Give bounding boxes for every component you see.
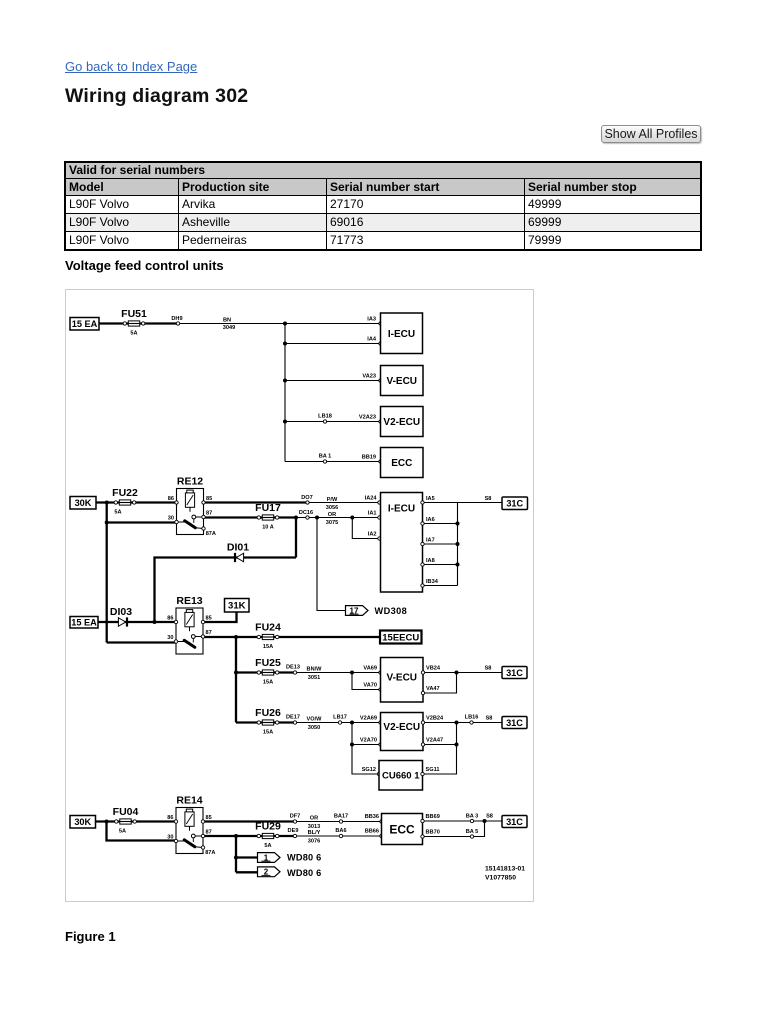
svg-text:FU25: FU25 — [255, 657, 281, 669]
wire RE13 87 through FU24 to 15EECU (thick) — [204, 636, 381, 638]
diode DI01 — [155, 558, 297, 623]
svg-text:I-ECU: I-ECU — [388, 504, 415, 515]
table: valid serial numbers — [64, 161, 702, 251]
figure border — [66, 290, 534, 902]
wire VO/W 3050 to V2-ECU V2A69 — [295, 722, 381, 724]
wire to IA4 — [285, 343, 381, 345]
svg-text:LB16: LB16 — [465, 715, 479, 721]
title — [65, 85, 248, 108]
V-ECU block (top) — [381, 366, 424, 396]
svg-text:5A: 5A — [119, 828, 126, 834]
V2-ECU block (top) — [381, 407, 424, 437]
connector 31C (row 2) — [502, 667, 527, 679]
wire FU25 feed (thick) — [236, 671, 295, 673]
pin IA5 — [421, 501, 424, 504]
node LB17 — [338, 721, 341, 724]
svg-text:3049: 3049 — [223, 325, 235, 331]
wire RE14 85 to DF7 (thick) — [204, 820, 296, 822]
link: go back — [65, 59, 197, 74]
pin V2A23 — [379, 420, 382, 423]
svg-text:87: 87 — [206, 630, 212, 636]
junction nodes — [153, 620, 157, 624]
node LB18 — [323, 420, 326, 423]
wire 30K feed (thick) through FU22 to RE12 86 — [96, 501, 177, 503]
svg-text:FU17: FU17 — [255, 502, 281, 514]
svg-text:CU660 1: CU660 1 — [382, 771, 420, 782]
node DE17 — [293, 721, 296, 724]
node DE13 — [293, 671, 296, 674]
connector 31C (row 4) — [502, 816, 527, 828]
fuse FU51 5A — [123, 322, 126, 325]
wires I-ECU right pins to 31C bus — [423, 502, 458, 504]
button Show All Profiles — [601, 125, 701, 143]
connector 30K — [70, 497, 96, 510]
wire V2B24 to 31C — [423, 722, 502, 724]
svg-text:V1077850: V1077850 — [485, 874, 516, 881]
svg-text:30: 30 — [167, 635, 173, 641]
svg-text:87A: 87A — [206, 531, 216, 537]
svg-text:FU24: FU24 — [255, 622, 281, 634]
svg-text:3075: 3075 — [326, 520, 338, 526]
connector 31C (row 1) — [502, 497, 528, 510]
svg-text:BB36: BB36 — [365, 814, 379, 820]
connector 31C (row 3) — [502, 717, 527, 729]
svg-text:SG11: SG11 — [426, 767, 440, 773]
wire BL/Y 3076 to ECC BB66 — [295, 835, 382, 837]
svg-text:RE13: RE13 — [176, 595, 202, 607]
svg-text:3076: 3076 — [308, 838, 320, 844]
connector WD308 pin 17 — [346, 606, 369, 616]
svg-text:86: 86 — [167, 815, 173, 821]
figure caption — [65, 929, 116, 944]
svg-text:V2A69: V2A69 — [360, 716, 377, 722]
wire RE14 87 through FU29 (thick) — [204, 835, 296, 837]
svg-text:BB19: BB19 — [362, 455, 376, 461]
fuse FU04 5A — [115, 820, 118, 823]
wire feed bus down to FU25/FU26 (thick) — [235, 637, 237, 723]
connector WD806 pin 1 — [258, 853, 281, 863]
wire ECC BB69 to 31C — [423, 820, 503, 822]
pin IA8 — [421, 563, 424, 566]
svg-text:V-ECU: V-ECU — [386, 672, 417, 683]
svg-text:WD308: WD308 — [375, 606, 408, 616]
wire vertical bus — [284, 324, 286, 462]
wire drop to DI01 (thick) — [295, 518, 297, 558]
svg-text:BB70: BB70 — [426, 830, 440, 836]
node LB16 — [470, 721, 473, 724]
fuse FU22 5A — [114, 501, 117, 504]
wire branch to VA70 — [352, 673, 381, 690]
wire S8 to 31C — [458, 502, 503, 504]
svg-text:86: 86 — [168, 496, 174, 502]
svg-text:VA23: VA23 — [362, 374, 376, 380]
svg-text:IA7: IA7 — [426, 538, 435, 544]
pin IA7 — [421, 542, 424, 545]
wire branch to V2A70 and SG12 — [352, 723, 379, 775]
wire RE13 85 up to 31K (thick) — [204, 612, 237, 622]
node BA6 — [339, 834, 342, 837]
svg-text:5A: 5A — [114, 509, 121, 515]
svg-text:3013: 3013 — [308, 824, 320, 830]
svg-text:87A: 87A — [205, 850, 215, 856]
connector 31K — [225, 599, 250, 613]
pin BB66 — [380, 834, 383, 837]
CU660 1 block — [379, 761, 423, 791]
wire 30K vertical bus (thick) — [106, 503, 108, 643]
svg-text:3050: 3050 — [308, 725, 320, 731]
node DO7 — [306, 501, 309, 504]
svg-text:15A: 15A — [263, 644, 273, 650]
svg-text:DC16: DC16 — [299, 510, 313, 516]
wire V2A47 riser and SG11 riser — [423, 744, 457, 746]
svg-text:LB18: LB18 — [318, 414, 332, 420]
svg-text:V2-ECU: V2-ECU — [383, 417, 420, 428]
pin IA2 — [378, 537, 381, 540]
svg-text:VA70: VA70 — [363, 683, 377, 689]
svg-text:30: 30 — [168, 515, 174, 521]
pin V2A69 — [379, 721, 382, 724]
svg-text:V2A47: V2A47 — [426, 738, 443, 744]
svg-text:FU51: FU51 — [121, 308, 147, 320]
svg-text:BA 1: BA 1 — [319, 454, 332, 460]
svg-text:IA2: IA2 — [368, 532, 377, 538]
svg-text:DE9: DE9 — [288, 828, 299, 834]
svg-text:85: 85 — [206, 815, 212, 821]
node BA3 — [470, 819, 473, 822]
svg-text:5A: 5A — [130, 330, 137, 336]
svg-text:85: 85 — [206, 496, 212, 502]
svg-text:VB24: VB24 — [426, 666, 441, 672]
svg-text:IA24: IA24 — [365, 496, 378, 502]
relay RE14 — [176, 808, 203, 854]
svg-text:DE13: DE13 — [286, 665, 300, 671]
pin IA3 — [379, 322, 382, 325]
junction nodes — [105, 820, 109, 824]
svg-text:IA4: IA4 — [367, 337, 377, 343]
svg-text:VO/W: VO/W — [307, 717, 323, 723]
wire ECC BB70 riser — [423, 821, 485, 837]
pin V2A47 — [421, 743, 424, 746]
pin BB69 — [421, 819, 424, 822]
svg-text:I-ECU: I-ECU — [388, 329, 415, 340]
svg-text:BA 3: BA 3 — [466, 814, 479, 820]
pin VA47 — [421, 691, 424, 694]
svg-text:BA17: BA17 — [334, 814, 348, 820]
svg-text:3056: 3056 — [326, 505, 338, 511]
pin BB70 — [421, 835, 424, 838]
fuse FU17 10A — [257, 516, 260, 519]
pin VA69 — [379, 671, 382, 674]
wire drop to WD308 arrow — [317, 518, 346, 611]
pin IA6 — [421, 522, 424, 525]
pin IB34 — [421, 584, 424, 587]
svg-text:15A: 15A — [263, 679, 273, 685]
svg-text:S8: S8 — [486, 814, 493, 820]
pin V2B24 — [421, 721, 424, 724]
wire drop to WD806 arrows (thick) — [235, 836, 237, 872]
wire OR 3013 to ECC BB36 — [295, 821, 382, 823]
svg-text:BB69: BB69 — [426, 814, 440, 820]
svg-text:FU29: FU29 — [255, 821, 281, 833]
svg-text:VA69: VA69 — [363, 666, 377, 672]
svg-text:DH9: DH9 — [171, 316, 182, 322]
wire 30K feed through FU04 to RE14 86 (thick) — [96, 820, 177, 822]
pin V2A70 — [379, 743, 382, 746]
svg-text:87: 87 — [206, 829, 212, 835]
wire P/W 3056 DO7 to I-ECU IA24 — [308, 502, 381, 504]
fuse FU25 15A — [257, 671, 260, 674]
fuse FU26 15A — [257, 721, 260, 724]
svg-text:DF7: DF7 — [290, 814, 301, 820]
svg-text:IA6: IA6 — [426, 517, 435, 523]
svg-text:BL/Y: BL/Y — [308, 830, 321, 836]
svg-text:V2B24: V2B24 — [426, 716, 444, 722]
svg-text:FU26: FU26 — [255, 707, 281, 719]
pin BB36 — [380, 820, 383, 823]
pin VA70 — [379, 688, 382, 691]
pin IA4 — [379, 342, 382, 345]
node DH9 — [176, 322, 179, 325]
pin IA24 — [378, 501, 381, 504]
svg-text:V2A23: V2A23 — [359, 415, 376, 421]
svg-text:DE17: DE17 — [286, 715, 300, 721]
ECC block (main) — [382, 814, 423, 845]
svg-text:RE12: RE12 — [177, 476, 203, 488]
svg-text:30K: 30K — [74, 817, 91, 827]
pin SG11 — [421, 772, 424, 775]
node BA5 — [470, 835, 473, 838]
svg-text:15EECU: 15EECU — [382, 632, 419, 643]
wire to RE12 pin 30 — [107, 521, 177, 523]
svg-text:86: 86 — [167, 615, 173, 621]
svg-text:WD80 6: WD80 6 — [287, 868, 321, 878]
junction nodes — [105, 501, 109, 505]
svg-text:31C: 31C — [506, 499, 523, 509]
pin BB19 — [379, 460, 382, 463]
svg-text:15141813-01: 15141813-01 — [485, 865, 525, 872]
svg-text:15A: 15A — [263, 729, 273, 735]
svg-text:P/W: P/W — [327, 497, 338, 503]
svg-text:5A: 5A — [264, 843, 271, 849]
svg-text:ECC: ECC — [389, 822, 415, 836]
diode DI03 — [118, 618, 125, 627]
svg-text:15 EA: 15 EA — [72, 319, 98, 329]
svg-text:DO7: DO7 — [301, 495, 313, 501]
V2-ECU block (main) — [381, 713, 424, 751]
svg-text:31C: 31C — [506, 817, 523, 827]
svg-text:S8: S8 — [485, 666, 492, 672]
wire to V-ECU VA23 — [285, 380, 381, 382]
wire V-ECU VB24 to 31C — [423, 672, 502, 674]
connector 15EECU — [380, 631, 422, 644]
ECC block (top) — [381, 448, 424, 478]
pin VB24 — [421, 671, 424, 674]
node DF7 — [293, 820, 296, 823]
svg-text:V2-ECU: V2-ECU — [383, 722, 420, 733]
fuse FU24 15A — [257, 635, 260, 638]
svg-text:30: 30 — [167, 834, 173, 840]
junction nodes on bus — [283, 322, 287, 326]
wire RE12 85 to DO7 (thick) — [204, 501, 308, 503]
node DC16 — [306, 516, 309, 519]
svg-text:FU22: FU22 — [112, 487, 138, 499]
connector 15EA (section 3) — [70, 617, 98, 629]
svg-text:BN/W: BN/W — [307, 667, 323, 673]
svg-text:31C: 31C — [506, 718, 523, 728]
svg-text:SG12: SG12 — [362, 767, 376, 773]
svg-text:IA3: IA3 — [367, 317, 376, 323]
I-ECU block (top) — [381, 313, 423, 354]
svg-text:IA8: IA8 — [426, 558, 435, 564]
wire BN 3049 from DH9 to I-ECU IA3 — [178, 323, 381, 325]
svg-text:OR: OR — [328, 512, 336, 518]
svg-text:30K: 30K — [75, 498, 92, 508]
connector 15EA — [70, 318, 99, 331]
wire VA47 riser — [423, 673, 457, 694]
connector 30K (section 4) — [70, 816, 96, 829]
svg-text:85: 85 — [206, 615, 212, 621]
svg-text:IB34: IB34 — [426, 579, 439, 585]
svg-text:WD80 6: WD80 6 — [287, 852, 321, 862]
svg-text:BB66: BB66 — [365, 829, 379, 835]
svg-text:BA6: BA6 — [335, 828, 346, 834]
svg-text:3051: 3051 — [308, 675, 320, 681]
svg-text:BA 5: BA 5 — [466, 829, 479, 835]
svg-text:15 EA: 15 EA — [71, 618, 97, 628]
wire FU26 feed (thick) — [236, 721, 295, 723]
svg-text:31K: 31K — [228, 601, 246, 612]
connector WD806 pin 2 — [258, 867, 281, 877]
fuse FU29 5A — [257, 834, 260, 837]
wire 15EA feed (thick) through FU51 to DH9 — [99, 322, 178, 324]
svg-text:S8: S8 — [485, 496, 492, 502]
svg-text:BN: BN — [223, 318, 231, 324]
relay RE12 — [177, 489, 204, 535]
node BA1 — [323, 460, 326, 463]
svg-text:IA5: IA5 — [426, 496, 435, 502]
svg-text:10 A: 10 A — [262, 524, 274, 530]
relay RE13 — [176, 608, 203, 654]
svg-text:IA1: IA1 — [368, 511, 377, 517]
pin VA23 — [379, 379, 382, 382]
V-ECU block (main) — [381, 658, 424, 703]
svg-text:LB17: LB17 — [333, 715, 347, 721]
svg-text:V2A70: V2A70 — [360, 738, 377, 744]
svg-text:DI03: DI03 — [110, 606, 132, 618]
subtitle — [65, 258, 224, 273]
I-ECU block (main) — [381, 493, 423, 593]
svg-text:31C: 31C — [506, 668, 523, 678]
svg-text:S8: S8 — [486, 716, 493, 722]
svg-text:VA47: VA47 — [426, 686, 440, 692]
pin SG12 — [377, 772, 380, 775]
svg-text:OR: OR — [310, 816, 318, 822]
svg-text:ECC: ECC — [391, 458, 412, 469]
svg-text:V-ECU: V-ECU — [386, 376, 417, 387]
wire to ECC BB19 — [285, 461, 381, 463]
wire RE12 87 through FU17 (thick) — [204, 516, 297, 518]
wire to V2-ECU V2A23 — [285, 421, 381, 423]
wire branch to IA2 — [352, 518, 380, 539]
wire RE13 30 from 30K bus — [107, 641, 176, 643]
svg-text:RE14: RE14 — [176, 795, 202, 807]
node BA17 — [339, 820, 342, 823]
wire OR 3075 to I-ECU IA1 — [296, 517, 381, 519]
wire BN/W 3051 to V-ECU VA69 — [295, 672, 381, 674]
wire to RE14 pin 30 (thick) — [107, 822, 177, 841]
svg-text:FU04: FU04 — [113, 806, 139, 818]
svg-text:DI01: DI01 — [227, 542, 249, 554]
wire 15EA through DI03 to RE13 86 (thick) — [98, 621, 176, 623]
svg-text:87: 87 — [206, 510, 212, 516]
pin IA1 — [378, 516, 381, 519]
node DE9 — [293, 834, 296, 837]
